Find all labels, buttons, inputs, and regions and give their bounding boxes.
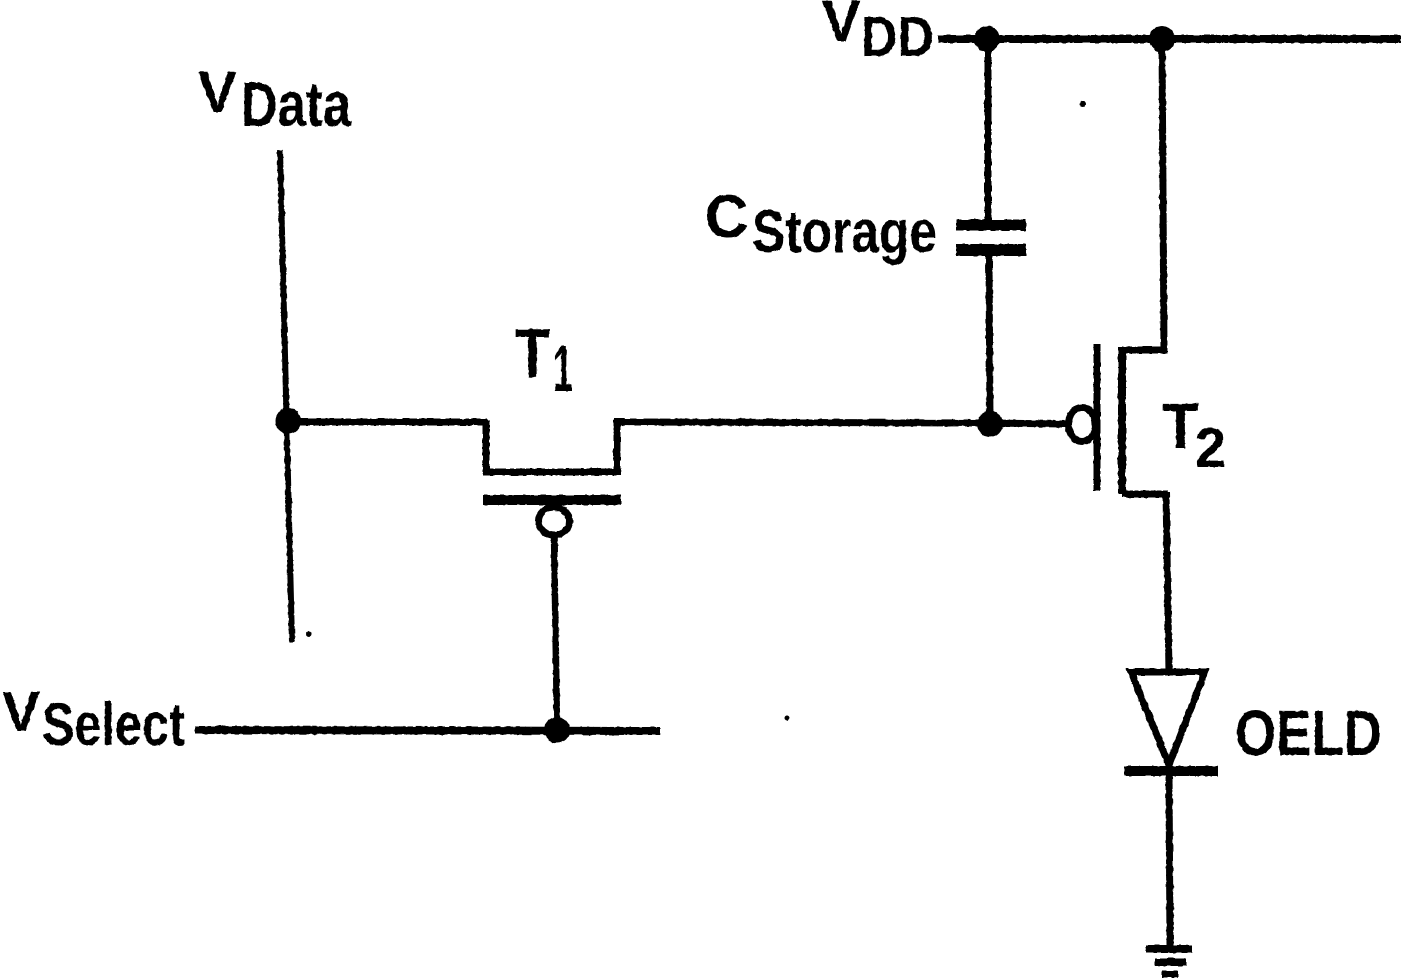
svg-text:T: T (1162, 390, 1199, 462)
svg-text:V: V (822, 0, 861, 54)
svg-text:DD: DD (861, 5, 934, 69)
svg-text:V: V (2, 680, 40, 744)
svg-text:V: V (198, 60, 237, 125)
svg-text:Select: Select (42, 691, 185, 758)
svg-text:Storage: Storage (752, 198, 937, 265)
svg-text:1: 1 (553, 331, 573, 405)
svg-text:OELD: OELD (1235, 697, 1382, 769)
svg-text:C: C (705, 183, 748, 250)
svg-text:2: 2 (1195, 416, 1226, 480)
svg-text:T: T (515, 314, 550, 392)
svg-text:Data: Data (241, 70, 352, 140)
